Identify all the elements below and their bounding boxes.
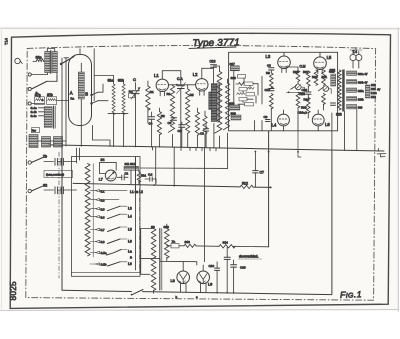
coil S7b <box>47 97 57 105</box>
bus line 2 (AVC rail) <box>73 183 271 187</box>
resistor Rw <box>32 128 40 133</box>
svg-text:R5: R5 <box>190 93 194 97</box>
wire unit bottom <box>80 110 82 146</box>
resistor R32 <box>322 94 326 105</box>
wire <box>47 75 57 81</box>
choke Sm3 <box>54 137 63 147</box>
svg-text:Zb: Zb <box>43 155 47 159</box>
wire tube L2 anode <box>202 68 214 78</box>
svg-text:C10a,b: C10a,b <box>298 111 308 115</box>
band contact 5.8 + switch to L6 <box>96 240 100 242</box>
svg-text:Ra: Ra <box>129 90 133 94</box>
svg-text:R28: R28 <box>301 106 307 110</box>
svg-text:R26: R26 <box>300 92 306 96</box>
AF unit box <box>229 52 338 131</box>
capacitor C4 <box>149 117 155 120</box>
secondary winding S25b <box>347 97 357 101</box>
svg-text:L2: L2 <box>193 72 198 77</box>
wire avc drop <box>173 148 175 186</box>
secondary winding S24a <box>347 71 357 75</box>
page scan edge top <box>0 27 400 30</box>
switch arm top of unit <box>61 57 74 65</box>
svg-text:L7: L7 <box>99 178 103 182</box>
svg-text:C8: C8 <box>200 132 204 136</box>
IF transformer core <box>217 83 219 122</box>
oscillator coil S3 (tapped) <box>85 164 90 256</box>
svg-text:5.2Ω: 5.2Ω <box>371 91 377 95</box>
terminal mains L <box>28 161 31 164</box>
wire <box>57 58 69 82</box>
meter A2 <box>323 86 329 92</box>
switch in heater bus <box>132 290 144 295</box>
bottom heater bus <box>62 290 332 294</box>
svg-text:R2: R2 <box>161 114 165 118</box>
svg-text:C9: C9 <box>267 64 271 68</box>
svg-text:5.3: 5.3 <box>101 198 105 202</box>
wire <box>214 66 220 148</box>
band contact 5.6 + switch to L4 <box>96 216 100 218</box>
rounded screening unit AB <box>69 55 92 126</box>
svg-text:C7: C7 <box>260 171 264 175</box>
svg-text:S23: S23 <box>336 113 342 117</box>
svg-text:S18: S18 <box>231 76 237 80</box>
wire ladder rail to lamp row <box>135 157 137 190</box>
svg-text:C: C <box>133 77 136 82</box>
resistor Za <box>171 244 179 248</box>
svg-text:R3: R3 <box>167 92 171 96</box>
ballast coil S27 <box>365 85 370 98</box>
wire <box>147 81 149 123</box>
wire S7b to unit <box>57 100 69 102</box>
wire secondary drop <box>356 109 358 151</box>
resistor cluster r2 <box>239 88 247 91</box>
transformer T2 winding 2 <box>52 52 57 73</box>
svg-text:R12: R12 <box>242 182 248 186</box>
wire AF feed line <box>140 167 228 169</box>
svg-text:S22: S22 <box>330 69 336 73</box>
svg-text:S17: S17 <box>230 62 236 66</box>
svg-text:Za: Za <box>172 240 176 244</box>
svg-text:C.M: C.M <box>300 65 306 69</box>
svg-text:S7a: S7a <box>35 93 41 97</box>
wire S23 rail <box>331 113 333 150</box>
terminal E <box>28 102 31 105</box>
resistor R7 <box>223 83 229 130</box>
svg-text:L9: L9 <box>208 283 212 287</box>
coil S7a <box>35 97 45 105</box>
resistor cluster r1 <box>236 83 244 86</box>
svg-text:S13: S13 <box>185 240 191 244</box>
svg-text:S1a: S1a <box>108 79 114 83</box>
svg-text:S11 S12: S11 S12 <box>125 162 136 166</box>
band contact 5.1 <box>96 190 128 192</box>
svg-text:L9: L9 <box>128 262 132 266</box>
resistor R3 <box>168 86 174 133</box>
tuning unit inner bottom line <box>72 271 141 273</box>
svg-text:S25b: S25b <box>358 99 364 102</box>
switch contact at unit <box>92 92 99 95</box>
main HT rail vertical right <box>331 150 333 294</box>
svg-text:C6: C6 <box>168 121 172 125</box>
svg-text:S24a 4V: S24a 4V <box>358 73 368 76</box>
wire osc feed <box>155 147 157 185</box>
wire AF coupling <box>140 259 197 265</box>
svg-text:S29: S29 <box>371 87 376 91</box>
wire filament feed line <box>167 245 219 248</box>
band contact S5b + switch to L9 <box>96 263 100 265</box>
svg-text:doorverbind.: doorverbind. <box>239 255 258 259</box>
wire vertical rail left <box>61 58 63 146</box>
ladder right rail <box>135 157 137 270</box>
coil S6a <box>36 59 44 62</box>
svg-text:8025: 8025 <box>9 281 18 301</box>
wire T4 top <box>350 48 362 51</box>
wire left rail down <box>61 146 63 290</box>
band contact 5.7 + switch to L5 <box>96 228 100 230</box>
page scan edge right <box>397 28 399 311</box>
svg-text:S.5b: S.5b <box>101 263 107 267</box>
resistor R4 <box>203 116 207 134</box>
svg-text:L5: L5 <box>327 55 332 60</box>
coil S3 core <box>92 164 94 258</box>
wire <box>98 84 108 101</box>
secondary winding S25a <box>347 88 357 92</box>
svg-text:5.1: 5.1 <box>101 189 105 193</box>
switch contact det2 <box>319 87 324 91</box>
svg-text:A: A <box>70 91 73 96</box>
band contact 5.5 + switch to L3 <box>96 208 100 210</box>
capacitor C12b <box>269 89 274 91</box>
page scan edge left <box>1 28 3 311</box>
choke Sm1 <box>29 135 38 148</box>
svg-text:Rb1: Rb1 <box>141 174 147 178</box>
secondary winding S26 <box>347 105 357 109</box>
svg-text:5.6: 5.6 <box>101 215 105 219</box>
wire gang feed <box>93 49 95 101</box>
capacitor C6 <box>171 118 177 121</box>
svg-text:5.5: 5.5 <box>101 207 105 211</box>
svg-text:S4: S4 <box>101 158 105 162</box>
resistor R11 <box>137 172 140 182</box>
svg-text:(aan,contact): (aan,contact) <box>46 173 64 177</box>
node dot <box>176 84 178 86</box>
coil S8 winding <box>44 107 52 128</box>
svg-text:C8: C8 <box>264 115 268 119</box>
junction dot bus2 b <box>173 185 175 187</box>
wire <box>38 141 66 146</box>
svg-text:La: La <box>128 250 132 254</box>
terminal mains N <box>28 189 31 192</box>
capacitor C3 <box>150 177 152 182</box>
svg-text:C12: C12 <box>265 88 271 92</box>
svg-text:C.3: C.3 <box>148 173 153 177</box>
transformer Tr anode coil <box>209 92 214 110</box>
wire <box>33 61 45 63</box>
svg-text:L6: L6 <box>325 122 330 127</box>
page scan edge bottom <box>0 310 399 311</box>
svg-text:S1b: S1b <box>118 79 124 83</box>
coil inside unit <box>78 72 84 99</box>
svg-text:C.A: C.A <box>177 77 183 81</box>
svg-text:B: B <box>85 92 88 97</box>
wire unit top feed <box>79 49 81 55</box>
svg-text:5.8: 5.8 <box>101 240 105 244</box>
wire unit bottom exit <box>93 126 111 147</box>
wire hook left of transformer <box>141 224 167 274</box>
svg-text:C4: C4 <box>149 122 153 126</box>
wire transformer bottom to bus <box>344 112 346 151</box>
svg-text:C2: C2 <box>125 172 129 176</box>
band contact S5a + switch to L8 <box>96 251 100 253</box>
choke Sm2 <box>42 137 51 147</box>
junction dot <box>255 151 257 153</box>
svg-text:L4: L4 <box>272 123 277 128</box>
mechanical gang link (dash-dot) <box>139 188 141 272</box>
wire IF drop <box>227 148 229 168</box>
antenna terminal d <box>15 58 20 63</box>
resistor R5 <box>186 89 190 133</box>
resistor cluster r3 <box>237 93 245 95</box>
wire detector drop <box>298 131 301 157</box>
svg-text:L1: L1 <box>154 73 159 78</box>
wire <box>94 76 128 147</box>
wire lamp loop <box>100 162 117 173</box>
junction dot <box>268 151 270 153</box>
resistor R9 <box>269 94 273 109</box>
svg-text:S26: S26 <box>358 107 363 110</box>
svg-text:L3: L3 <box>266 54 271 59</box>
wire box bottom taps <box>255 121 263 131</box>
inner dash-dot border frame <box>26 46 376 301</box>
wire to HT vertical <box>233 245 268 248</box>
wire tube L1 anode top <box>162 71 181 82</box>
capacitor block K2 <box>55 187 63 194</box>
terminal A1 <box>28 73 31 76</box>
svg-text:S6a: S6a <box>36 56 42 60</box>
svg-text:S14: S14 <box>223 241 229 245</box>
capacitor C14 <box>224 257 230 259</box>
wire long vertical from AF box <box>268 131 270 247</box>
wire <box>47 49 54 52</box>
wire detector to output grid <box>204 148 206 261</box>
junction dots bottom <box>216 292 218 294</box>
svg-text:L8: L8 <box>171 279 175 283</box>
wire vertical rail left 2 <box>65 58 67 141</box>
svg-text:C6: C6 <box>178 129 182 133</box>
label aan contact <box>44 171 73 178</box>
svg-text:R8: R8 <box>266 71 270 75</box>
mains transformer core <box>342 70 345 112</box>
junction dot bus2 <box>153 184 155 186</box>
junction dot <box>297 151 299 153</box>
svg-text:15Ω: 15Ω <box>371 95 376 99</box>
resistor cluster r4 <box>239 98 247 101</box>
svg-text:S25a: S25a <box>358 90 364 93</box>
output transformer core <box>159 229 161 291</box>
wire <box>31 103 44 105</box>
wire inner verticals <box>234 71 262 105</box>
resistor Ra2 <box>129 93 135 98</box>
capacitor C21 <box>331 103 336 105</box>
svg-text:L3: L3 <box>128 207 132 211</box>
outer solid border frame <box>10 33 390 308</box>
band contact 5.3 <box>96 199 120 201</box>
junction dot <box>270 186 272 188</box>
svg-text:B: B <box>130 256 132 260</box>
svg-text:R1: R1 <box>150 90 154 94</box>
svg-text:4V: 4V <box>377 88 380 92</box>
svg-text:L6: L6 <box>128 240 132 244</box>
transformer T2 winding 1 <box>45 52 50 73</box>
earth hook at bus end <box>377 149 386 157</box>
resistor cluster r5 <box>245 103 254 106</box>
mechanical link (dash-dot) <box>58 152 60 278</box>
wire <box>31 73 47 75</box>
svg-text:C16: C16 <box>209 264 215 268</box>
output tube L8 <box>177 271 190 284</box>
pilot lamp L7 <box>105 170 116 181</box>
resistor R1 <box>146 86 150 110</box>
svg-text:L5: L5 <box>128 228 132 232</box>
terminal A2 <box>28 87 31 90</box>
svg-text:T14: T14 <box>4 37 9 45</box>
output tube L9 <box>197 271 210 284</box>
svg-text:C13: C13 <box>210 60 216 64</box>
switch contact det <box>291 86 297 90</box>
capacitor C2 <box>122 175 124 180</box>
svg-text:Ra: Ra <box>71 97 75 101</box>
resistor R2 <box>157 112 161 135</box>
bus junction ticks <box>153 147 217 151</box>
meter A1 <box>295 84 301 90</box>
IF transformer primary winding <box>211 84 217 122</box>
svg-text:S.4c: S.4c <box>31 114 38 118</box>
coil S3 taps <box>90 191 96 264</box>
svg-text:S24b 4V: S24b 4V <box>358 82 368 85</box>
tuning unit box <box>72 157 141 277</box>
svg-text:S10: S10 <box>164 225 170 229</box>
svg-text:C20: C20 <box>302 88 308 92</box>
IF transformer secondary coil <box>215 72 222 134</box>
capacitor block K1 <box>55 158 63 165</box>
svg-text:S.5a: S.5a <box>101 251 107 255</box>
wire transformer taps <box>154 257 167 293</box>
svg-text:S7b: S7b <box>47 93 53 97</box>
svg-text:L4: L4 <box>128 215 132 219</box>
svg-text:S28: S28 <box>371 83 376 87</box>
resistor R6 <box>195 112 199 135</box>
transformer T2 core <box>50 51 52 74</box>
svg-text:C15: C15 <box>240 266 246 270</box>
capacitor C5 <box>179 125 185 128</box>
wire grid line L1-L2 <box>169 84 196 86</box>
title underline <box>189 47 236 48</box>
svg-text:L1 en L2: L1 en L2 <box>130 190 143 194</box>
switch contact at unit lower <box>92 101 99 104</box>
switch arm S (aerial selector) <box>32 81 47 88</box>
capacitor C8a <box>204 129 209 131</box>
bus line 1 (grid bias rail) <box>49 145 384 151</box>
secondary winding S24b <box>347 80 357 84</box>
svg-text:5.7: 5.7 <box>101 228 105 232</box>
coil S8 core <box>53 106 55 128</box>
wire feed into unit <box>77 148 80 163</box>
capacitor C7 <box>253 171 258 173</box>
